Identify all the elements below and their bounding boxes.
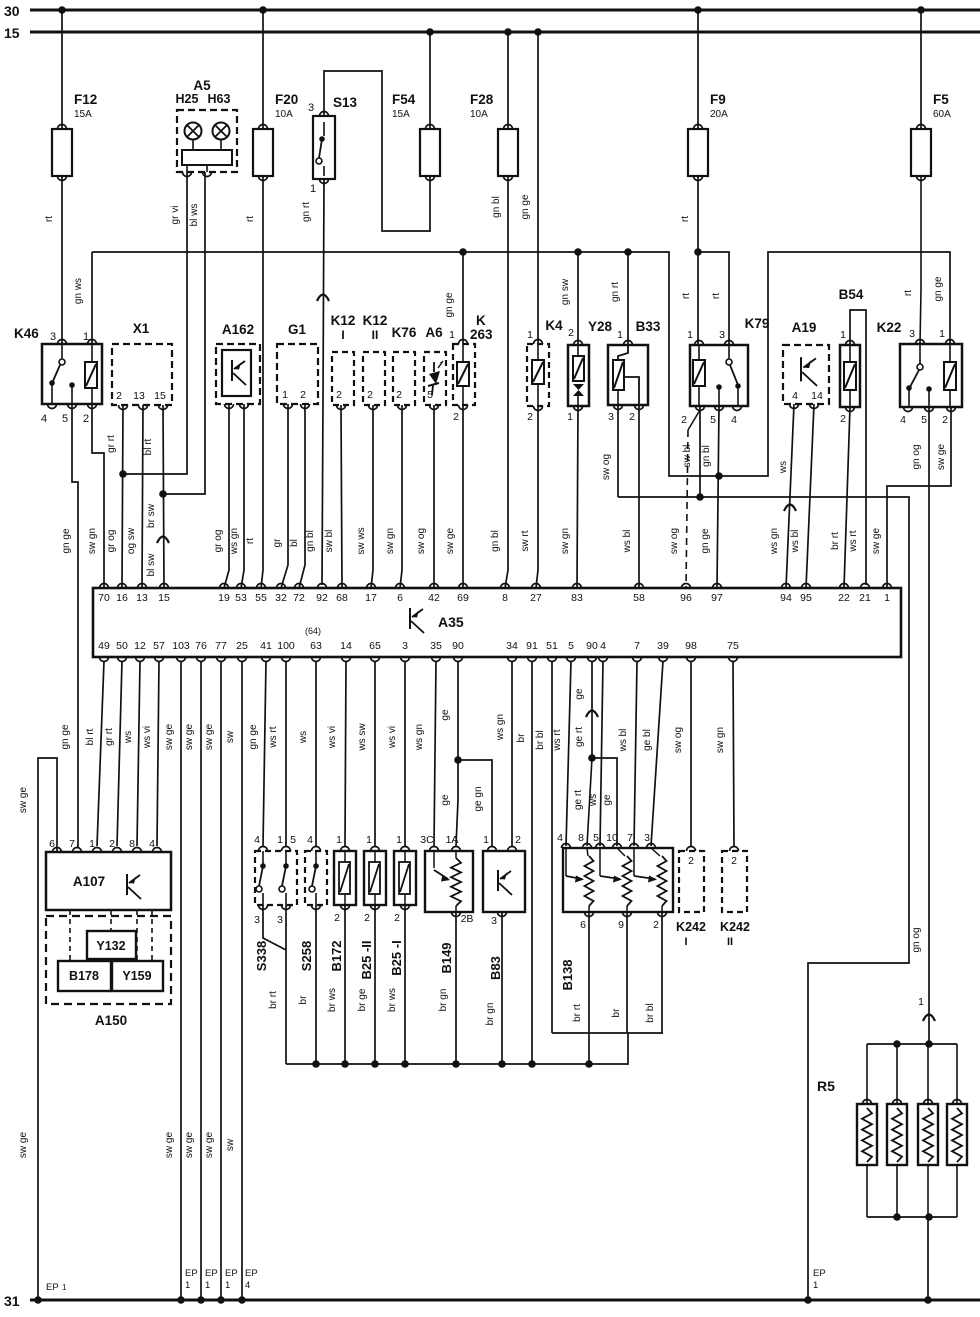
svg-text:100: 100: [277, 640, 295, 652]
svg-text:EP: EP: [813, 1268, 826, 1279]
svg-text:ws vi: ws vi: [142, 726, 153, 749]
svg-text:I: I: [684, 936, 687, 948]
svg-text:sw rt: sw rt: [520, 530, 531, 551]
svg-text:I: I: [341, 328, 344, 342]
svg-text:gn rt: gn rt: [301, 202, 312, 222]
svg-text:3: 3: [644, 832, 650, 844]
svg-text:ws bl: ws bl: [618, 729, 629, 753]
svg-text:3: 3: [909, 328, 915, 340]
svg-text:ws rt: ws rt: [268, 726, 279, 748]
svg-text:1: 1: [840, 329, 846, 341]
wire loop F54 to S13 pin 3: [324, 71, 430, 231]
S338 contact b: [285, 851, 287, 864]
svg-text:12: 12: [134, 640, 146, 652]
wire br ge B25-II to bus: [374, 905, 376, 1064]
node on rail at K263: [459, 248, 467, 256]
junction dots on track 30: [58, 6, 66, 14]
svg-text:8: 8: [502, 592, 508, 604]
svg-text:2: 2: [731, 855, 737, 867]
svg-text:2: 2: [300, 389, 306, 401]
svg-text:16: 16: [116, 592, 128, 604]
svg-text:5: 5: [593, 832, 599, 844]
svg-text:B83: B83: [488, 956, 503, 980]
svg-text:94: 94: [780, 592, 792, 604]
svg-text:bl: bl: [289, 539, 300, 547]
wire sw og B33 pin3 to ground rail: [617, 405, 619, 497]
svg-text:gn ge: gn ge: [520, 194, 531, 219]
svg-text:sw ge: sw ge: [204, 724, 215, 751]
svg-text:sw og: sw og: [416, 528, 427, 554]
svg-text:1A: 1A: [446, 834, 459, 846]
svg-text:K22: K22: [877, 320, 902, 335]
wire ge A35 pin 90 to B149 pin 1A: [456, 661, 458, 846]
wire br B138 pin 9 to step: [626, 912, 628, 1033]
wire bl G1 pin2 to A35 pin 72: [299, 404, 305, 588]
fuse F54 15A: [420, 129, 440, 176]
node F9 branch: [694, 248, 702, 256]
svg-text:br ws: br ws: [387, 988, 398, 1012]
unit A150 (dashed box): [46, 916, 171, 1004]
svg-text:65: 65: [369, 640, 381, 652]
svg-text:ws: ws: [123, 731, 134, 744]
svg-text:EP: EP: [245, 1268, 258, 1279]
svg-text:69: 69: [457, 592, 469, 604]
svg-text:gn ge: gn ge: [60, 724, 71, 749]
svg-text:ws vi: ws vi: [327, 726, 338, 749]
wire sw ge K263 to A35 pin 69: [462, 405, 464, 588]
svg-text:X1: X1: [133, 321, 150, 336]
svg-text:1: 1: [282, 389, 288, 401]
svg-text:br ws: br ws: [327, 988, 338, 1012]
svg-text:ws rt: ws rt: [848, 530, 859, 552]
wire gr rt X1 pin2 to A35 pin 16: [122, 405, 123, 588]
svg-text:4: 4: [900, 414, 906, 426]
svg-text:br: br: [298, 995, 309, 1005]
svg-text:H25: H25: [176, 92, 199, 106]
svg-text:br bl: br bl: [645, 1003, 656, 1022]
svg-text:15: 15: [158, 592, 170, 604]
svg-text:4: 4: [731, 414, 737, 426]
wire rt F5 to K22 pin 3: [920, 176, 922, 290]
svg-text:II: II: [727, 936, 733, 948]
wire sw og A6 to A35 pin 42: [433, 405, 435, 588]
wire ge bl A35 pin 39 to B138 pin 3: [651, 661, 663, 846]
wire from 30 to F20: [262, 10, 264, 129]
svg-text:K12: K12: [331, 313, 356, 328]
svg-text:EP: EP: [185, 1268, 198, 1279]
wire ws bl B33 pin2 to A35 pin 58: [638, 405, 640, 588]
svg-text:K79: K79: [745, 316, 770, 331]
svg-text:2B: 2B: [461, 913, 474, 925]
wire ws bl A19 pin14 to A35 pin 95: [806, 404, 814, 588]
svg-text:8: 8: [578, 832, 584, 844]
B138 wiper 3: [633, 848, 635, 876]
wire gr og A162 to A35 pin 19: [224, 404, 229, 588]
svg-text:sw og: sw og: [601, 454, 612, 480]
svg-text:15A: 15A: [74, 109, 92, 120]
svg-text:22: 22: [838, 592, 850, 604]
svg-text:gr og: gr og: [213, 530, 224, 553]
svg-text:2: 2: [364, 912, 370, 924]
svg-text:br rt: br rt: [572, 1004, 583, 1022]
wire B54 pin1 elbow to A35 pin 21: [850, 310, 866, 585]
svg-text:1: 1: [617, 329, 623, 341]
svg-text:5: 5: [290, 834, 296, 846]
svg-text:92: 92: [316, 592, 328, 604]
svg-text:gn bl: gn bl: [305, 530, 316, 552]
B33 thermistor: [613, 360, 624, 390]
svg-text:gn og: gn og: [911, 927, 922, 952]
node on rail at B33: [624, 248, 632, 256]
wire br ws B172 to bus: [344, 905, 346, 1064]
svg-text:19: 19: [218, 592, 230, 604]
svg-text:K12: K12: [363, 313, 388, 328]
svg-text:F9: F9: [710, 92, 726, 107]
svg-text:55: 55: [255, 592, 267, 604]
svg-text:30: 30: [4, 3, 20, 19]
svg-text:8: 8: [129, 838, 135, 850]
relay K242 II (dashed box): [722, 851, 747, 912]
wire from 30 to F5: [920, 10, 922, 129]
svg-text:sw bl: sw bl: [324, 530, 335, 553]
control unit A19 (dashed box): [783, 345, 829, 404]
svg-text:3C: 3C: [420, 834, 434, 846]
R5 element 2: [887, 1104, 907, 1165]
svg-text:sw ge: sw ge: [871, 528, 882, 555]
wire sw bl K79 pin2 down: [699, 406, 701, 497]
resistor K263 (dashed box): [453, 344, 475, 405]
svg-text:2: 2: [527, 411, 533, 423]
wire from 30 to F12: [61, 10, 63, 129]
svg-text:gr rt: gr rt: [104, 728, 115, 746]
svg-text:sw ge: sw ge: [18, 1132, 29, 1159]
svg-text:ge rt: ge rt: [573, 790, 584, 810]
relay K12 II (dashed box): [363, 352, 385, 405]
relay K46: [42, 344, 102, 404]
Y28 valve symbol: [573, 356, 584, 381]
svg-text:49: 49: [98, 640, 110, 652]
svg-text:EP: EP: [205, 1268, 218, 1279]
svg-text:sw: sw: [225, 730, 236, 743]
svg-text:ge rt: ge rt: [574, 727, 585, 747]
wire br gn B83 pin 3 to bus: [501, 912, 503, 1064]
svg-text:34: 34: [506, 640, 518, 652]
svg-text:B149: B149: [439, 942, 454, 973]
svg-text:ge: ge: [440, 794, 451, 806]
svg-text:1: 1: [918, 996, 924, 1008]
svg-text:1: 1: [396, 834, 402, 846]
svg-text:4: 4: [245, 1280, 250, 1291]
svg-text:7: 7: [634, 640, 640, 652]
sensor B54: [840, 345, 860, 407]
svg-text:2: 2: [336, 389, 342, 401]
svg-text:og sw: og sw: [126, 527, 137, 554]
svg-text:3: 3: [491, 915, 497, 927]
svg-text:72: 72: [293, 592, 305, 604]
svg-text:3: 3: [308, 102, 314, 114]
svg-text:EP: EP: [46, 1282, 59, 1293]
svg-text:39: 39: [657, 640, 669, 652]
svg-text:S338: S338: [254, 941, 269, 971]
wire from 15 to F54: [429, 32, 431, 129]
S338 contact a: [262, 851, 264, 864]
svg-text:gr: gr: [272, 538, 283, 548]
svg-text:F12: F12: [74, 92, 97, 107]
svg-text:sw ge: sw ge: [204, 1132, 215, 1159]
ground bus br: [286, 1033, 628, 1064]
wire ws A35 pin 4 to B138 pin 5: [600, 661, 603, 846]
svg-text:rt: rt: [245, 538, 256, 544]
svg-text:15: 15: [154, 390, 166, 402]
svg-text:A6: A6: [425, 325, 443, 340]
R5 bottom bus: [867, 1216, 957, 1218]
svg-text:Y132: Y132: [96, 939, 125, 953]
svg-text:25: 25: [236, 640, 248, 652]
svg-text:rt: rt: [680, 216, 691, 222]
svg-text:A162: A162: [222, 322, 254, 337]
A5 internal bar: [182, 150, 232, 165]
svg-text:32: 32: [275, 592, 287, 604]
svg-text:br gn: br gn: [485, 1003, 496, 1026]
svg-text:ws sw: ws sw: [357, 723, 368, 752]
B138 resistor 3: [658, 856, 667, 906]
connector X1 (dashed box): [112, 344, 172, 405]
wire gr vi from A5 H25: [125, 172, 187, 474]
svg-text:4: 4: [149, 838, 155, 850]
branch ge to B138 pin 10: [592, 758, 617, 846]
bus track 15: [30, 31, 980, 34]
wire bl rt A35 pin 49 to A107 pin 1: [97, 661, 104, 846]
svg-text:2: 2: [568, 327, 574, 339]
K22 switch contact: [919, 344, 921, 364]
relay K242 I (dashed box): [679, 851, 704, 912]
svg-text:103: 103: [172, 640, 190, 652]
svg-text:B54: B54: [839, 287, 864, 302]
svg-text:ws: ws: [778, 461, 789, 474]
wire br bl B138 pin 2 to step: [661, 912, 663, 1033]
svg-text:sw ws: sw ws: [356, 527, 367, 554]
svg-text:1: 1: [567, 411, 573, 423]
svg-text:K242: K242: [720, 920, 750, 934]
svg-text:bl rt: bl rt: [85, 728, 96, 745]
svg-text:2: 2: [942, 414, 948, 426]
svg-text:42: 42: [428, 592, 440, 604]
node ge rt branch: [588, 754, 596, 762]
svg-text:B25 -I: B25 -I: [389, 940, 404, 975]
node on rail at K79 pin5 column: [715, 472, 723, 480]
potentiometer B149: [425, 851, 473, 912]
svg-text:1: 1: [687, 329, 693, 341]
wire ge rt A35 pin 90 to B138 pin 8: [591, 661, 593, 758]
wire gn rt B33 pin1 up to rail: [627, 252, 629, 345]
svg-text:98: 98: [685, 640, 697, 652]
wire ws A35 pin 63 to S258 pin 4: [315, 661, 317, 846]
svg-text:rt: rt: [245, 216, 256, 222]
fuse F12 15A: [52, 129, 72, 176]
svg-text:br gn: br gn: [438, 989, 449, 1012]
svg-text:sw gn: sw gn: [385, 528, 396, 554]
B149 resistor and wiper: [451, 858, 461, 906]
wire sw rt K4 to A35 pin 27: [536, 406, 538, 588]
svg-text:2: 2: [367, 389, 373, 401]
wire from 30 to F9: [697, 10, 699, 129]
svg-text:2: 2: [840, 413, 846, 425]
svg-text:3: 3: [254, 914, 260, 926]
svg-text:A107: A107: [73, 874, 105, 889]
wire rt branch to K79 pin 3: [698, 252, 729, 345]
node K79 pin2 on ground rail: [696, 493, 704, 501]
svg-text:A19: A19: [792, 320, 817, 335]
svg-text:2: 2: [681, 414, 687, 426]
sensor G1 (dashed box): [277, 344, 318, 404]
svg-text:4: 4: [792, 390, 798, 402]
wire gn ge track 15 to K4 pin 1: [537, 32, 539, 344]
svg-text:2: 2: [394, 912, 400, 924]
B138 resistor 1: [585, 856, 594, 906]
dashed alternative wire sw og to A35 pin 96: [688, 410, 700, 430]
svg-text:57: 57: [153, 640, 165, 652]
ground bus step: [552, 1032, 663, 1034]
fuse F28 10A: [498, 129, 518, 176]
wire gn ge rail to K263 pin 1: [462, 252, 464, 344]
svg-text:5: 5: [921, 414, 927, 426]
wire br rt S338 pin3a merge: [263, 905, 286, 950]
svg-text:ge: ge: [440, 709, 451, 721]
valve Y132: [87, 931, 136, 959]
svg-text:27: 27: [530, 592, 542, 604]
svg-text:1: 1: [939, 328, 945, 340]
svg-text:1: 1: [449, 329, 455, 341]
B138 wiper 1: [565, 848, 567, 876]
junction dots on track 15: [426, 28, 434, 36]
svg-text:gn og: gn og: [911, 444, 922, 469]
svg-text:sw gn: sw gn: [715, 727, 726, 753]
svg-text:1: 1: [310, 183, 316, 195]
svg-text:1: 1: [813, 1280, 818, 1291]
svg-text:sw ge: sw ge: [184, 1132, 195, 1159]
svg-text:5: 5: [568, 640, 574, 652]
svg-text:10A: 10A: [470, 109, 488, 120]
svg-text:13: 13: [133, 390, 145, 402]
R5 element 3: [918, 1104, 938, 1165]
svg-text:ws bl: ws bl: [790, 530, 801, 554]
sensor B33: [608, 345, 648, 405]
svg-text:2: 2: [453, 411, 459, 423]
svg-text:1: 1: [89, 838, 95, 850]
K79 switch contact: [728, 345, 730, 359]
svg-text:6: 6: [397, 592, 403, 604]
ground wire sw ge A35 pin 76 to track 31: [200, 661, 202, 1300]
wire sw bl K12 I to A35 pin 68: [341, 405, 342, 588]
svg-text:F54: F54: [392, 92, 416, 107]
wire rt F20 to A35 pin 55: [261, 176, 263, 588]
svg-text:B138: B138: [560, 959, 575, 990]
node ge branch: [454, 756, 462, 764]
wire gn rt S13 pin 1 to A35 pin 92: [322, 179, 324, 585]
svg-text:4: 4: [557, 832, 563, 844]
wire br ws B25-I to bus: [404, 905, 406, 1064]
svg-text:A150: A150: [95, 1013, 127, 1028]
svg-text:6: 6: [580, 919, 586, 931]
valve Y28: [568, 345, 589, 406]
relay K22: [900, 344, 962, 407]
svg-text:gn rt: gn rt: [610, 282, 621, 302]
R5 element 1: [857, 1104, 877, 1165]
svg-text:K4: K4: [545, 318, 563, 333]
svg-text:ge: ge: [602, 794, 613, 806]
svg-text:bl ws: bl ws: [189, 204, 200, 227]
node bl ws joins: [159, 490, 167, 498]
svg-text:br rt: br rt: [830, 532, 841, 550]
svg-text:63: 63: [310, 640, 322, 652]
fuse F20 10A: [253, 129, 273, 176]
svg-text:7: 7: [69, 838, 75, 850]
svg-text:90: 90: [452, 640, 464, 652]
svg-text:17: 17: [365, 592, 377, 604]
svg-text:II: II: [372, 328, 379, 342]
svg-text:K76: K76: [392, 325, 417, 340]
S13 contact: [319, 136, 325, 142]
wire ws gn A162 to A35 pin 53: [241, 404, 244, 588]
svg-text:60A: 60A: [933, 109, 951, 120]
svg-text:20A: 20A: [710, 109, 728, 120]
svg-text:7: 7: [627, 832, 633, 844]
svg-text:F28: F28: [470, 92, 494, 107]
svg-text:ws gn: ws gn: [495, 714, 506, 741]
wire bl ws from A5 H63: [165, 172, 205, 494]
svg-text:bl rt: bl rt: [143, 438, 154, 455]
K79 coil: [693, 360, 705, 386]
svg-text:1: 1: [336, 834, 342, 846]
svg-text:15A: 15A: [392, 109, 410, 120]
ground wire sw ge A35 pin 103 to track 31: [180, 661, 182, 1300]
R5 element 4: [947, 1104, 967, 1165]
svg-text:rt: rt: [44, 216, 55, 222]
wire br rt S338 to bus: [285, 905, 287, 1064]
svg-text:1: 1: [527, 329, 533, 341]
svg-text:ws vi: ws vi: [387, 726, 398, 749]
wire sw gn K76 to A35 pin 6: [400, 405, 402, 588]
svg-text:4: 4: [254, 834, 260, 846]
svg-text:EP: EP: [225, 1268, 238, 1279]
svg-text:1: 1: [277, 834, 283, 846]
svg-text:gn ge: gn ge: [61, 528, 72, 553]
svg-text:14: 14: [340, 640, 352, 652]
svg-text:1: 1: [185, 1280, 190, 1291]
svg-text:ge bl: ge bl: [642, 729, 653, 751]
svg-text:3: 3: [608, 411, 614, 423]
wire sw gn Y28 pin1 to A35 pin 83: [577, 406, 578, 588]
bus track 31: [30, 1299, 980, 1302]
svg-text:gn ge: gn ge: [248, 724, 259, 749]
svg-text:br bl: br bl: [535, 730, 546, 749]
A6 diode symbol: [433, 362, 435, 372]
wire X1 pin13 to A35 pin 13: [142, 405, 143, 588]
svg-text:1: 1: [483, 834, 489, 846]
svg-text:3: 3: [719, 329, 725, 341]
wire gr rt A35 pin 50 to A107 pin 2: [117, 661, 122, 846]
svg-text:sw gn: sw gn: [87, 528, 98, 554]
svg-text:gn ge: gn ge: [700, 528, 711, 553]
svg-text:10: 10: [606, 832, 618, 844]
svg-text:br ge: br ge: [357, 988, 368, 1011]
wire ws vi A35 pin 14 to B172 pin 1: [345, 661, 346, 846]
sensor B25-II: [364, 851, 386, 905]
wire gn ws K46 pin 1 rail: [92, 252, 950, 476]
svg-text:ws gn: ws gn: [769, 528, 780, 555]
svg-text:41: 41: [260, 640, 272, 652]
wire ws gn A35 pin 35 to B149 pin 3C: [434, 661, 436, 846]
